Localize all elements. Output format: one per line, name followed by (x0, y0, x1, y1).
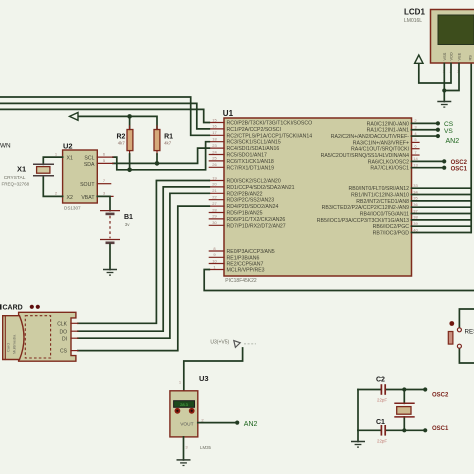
svg-text:Card: Card (6, 343, 11, 352)
svg-text:22pF: 22pF (377, 438, 387, 443)
svg-text:C1: C1 (376, 419, 385, 426)
svg-text:35: 35 (413, 196, 418, 201)
svg-text:18: 18 (212, 137, 217, 142)
svg-text:C2: C2 (376, 377, 385, 384)
svg-text:DO: DO (60, 329, 68, 335)
svg-text:SOUT: SOUT (80, 182, 95, 188)
svg-text:LM35: LM35 (200, 445, 212, 450)
svg-text:RA5/C2OUT/SRNQ/SS1/HLVDIN/AN4: RA5/C2OUT/SRNQ/SS1/HLVDIN/AN4 (321, 153, 410, 159)
svg-text:RA1/C12IN1-/AN1: RA1/C12IN1-/AN1 (367, 128, 409, 134)
svg-text:RD4/P2D/SDO2/AN24: RD4/P2D/SDO2/AN24 (227, 204, 279, 210)
svg-text:38: 38 (413, 215, 418, 220)
svg-text:RB4/IOC0/T5G/AN11: RB4/IOC0/T5G/AN11 (360, 212, 409, 218)
svg-text:AN2: AN2 (244, 421, 258, 428)
svg-text:CS: CS (60, 349, 68, 355)
svg-text:10: 10 (212, 258, 217, 263)
svg-text:U3: U3 (199, 374, 209, 383)
svg-text:RD5/P1B/AN25: RD5/P1B/AN25 (227, 211, 263, 217)
svg-text:RB0/INT0/FLT0/SRI/AN12: RB0/INT0/FLT0/SRI/AN12 (349, 186, 410, 192)
svg-text:DI: DI (62, 336, 67, 342)
svg-text:33: 33 (413, 183, 418, 188)
svg-text:RESET: RESET (465, 329, 474, 336)
svg-text:DS1307: DS1307 (64, 206, 81, 211)
svg-text:SCL: SCL (84, 155, 94, 161)
svg-text:FREQ=32768: FREQ=32768 (2, 182, 30, 187)
svg-text:RC2/CTPLS/P1A/CCP1/T5CKI/AN14: RC2/CTPLS/P1A/CCP1/T5CKI/AN14 (227, 133, 313, 139)
svg-text:U3(+V5): U3(+V5) (210, 340, 229, 346)
svg-text:13: 13 (413, 163, 418, 168)
svg-text:RA2/C2IN+/AN2/DACOUT/VREF-: RA2/C2IN+/AN2/DACOUT/VREF- (331, 134, 410, 140)
svg-text:3v: 3v (125, 222, 131, 227)
svg-text:27: 27 (212, 201, 217, 206)
svg-text:OSC1: OSC1 (432, 426, 449, 432)
svg-text:40: 40 (413, 227, 418, 232)
svg-text:RD3/P2C/SS2/AN23: RD3/P2C/SS2/AN23 (227, 198, 275, 204)
svg-text:37: 37 (413, 208, 418, 213)
svg-text:RC4/SDI1/SDA1/AN16: RC4/SDI1/SDA1/AN16 (227, 146, 280, 152)
svg-text:RA3/C1IN+/AN3/VREF+: RA3/C1IN+/AN3/VREF+ (353, 140, 409, 146)
svg-text:23: 23 (212, 143, 217, 148)
svg-text:WN: WN (0, 143, 11, 150)
svg-text:SDA: SDA (84, 162, 95, 168)
svg-text:14: 14 (413, 156, 418, 161)
svg-text:RB7/IOC3/PGD: RB7/IOC3/PGD (373, 231, 410, 237)
svg-text:RB3/CTED2/P2A/CCP2/C12IN2-/AN9: RB3/CTED2/P2A/CCP2/C12IN2-/AN9 (322, 205, 409, 211)
svg-text:RC3/SCK1/SCL1/AN15: RC3/SCK1/SCL1/AN15 (227, 140, 281, 146)
svg-text:LCD1: LCD1 (404, 8, 425, 17)
svg-text:22pF: 22pF (377, 398, 387, 403)
svg-text:RB5/IOC1/P3A/CCP3/T3CKI/T1G/AN: RB5/IOC1/P3A/CCP3/T3CKI/T1G/AN13 (317, 218, 409, 224)
svg-text:X2: X2 (67, 195, 73, 201)
svg-text:CARD: CARD (3, 305, 23, 312)
svg-text:B1: B1 (124, 214, 133, 221)
svg-text:RC6/TX1/CK1/AN18: RC6/TX1/CK1/AN18 (227, 159, 274, 165)
svg-text:24: 24 (212, 149, 217, 154)
svg-text:AN2: AN2 (446, 138, 460, 145)
svg-text:RE1/P3B/AN6: RE1/P3B/AN6 (227, 255, 260, 261)
svg-text:PIC18F45K22: PIC18F45K22 (225, 278, 257, 284)
svg-text:RC5/SDO1/AN17: RC5/SDO1/AN17 (227, 153, 267, 159)
svg-text:21: 21 (212, 188, 217, 193)
svg-text:RB6/IOC2/PGC: RB6/IOC2/PGC (373, 224, 410, 230)
svg-text:19: 19 (212, 175, 217, 180)
svg-text:25: 25 (212, 156, 217, 161)
svg-text:30: 30 (212, 220, 217, 225)
svg-text:28.3: 28.3 (180, 402, 189, 407)
svg-text:VDD: VDD (449, 52, 454, 60)
svg-text:X1: X1 (67, 155, 73, 161)
svg-text:CRYSTAL: CRYSTAL (4, 175, 26, 181)
svg-text:RB2/INT2/CTED1/AN8: RB2/INT2/CTED1/AN8 (356, 199, 409, 205)
svg-text:RA4/C1OUT/SRQ/T0CKI: RA4/C1OUT/SRQ/T0CKI (351, 147, 409, 153)
svg-text:R1: R1 (164, 133, 173, 140)
svg-text:VSS: VSS (442, 52, 447, 60)
svg-text:34: 34 (413, 189, 418, 194)
svg-text:OSC2: OSC2 (451, 160, 468, 166)
svg-text:CLK: CLK (57, 321, 67, 327)
svg-text:VEE: VEE (457, 52, 462, 60)
svg-text:4k7: 4k7 (118, 140, 126, 145)
svg-text:OSC2: OSC2 (432, 392, 449, 398)
svg-text:RC7/RX1/DT1/AN19: RC7/RX1/DT1/AN19 (227, 165, 275, 171)
svg-text:VOUT: VOUT (180, 421, 193, 427)
svg-text:Multimedia: Multimedia (12, 334, 17, 354)
svg-text:4k7: 4k7 (164, 140, 172, 145)
svg-text:20: 20 (212, 182, 217, 187)
svg-text:RD0/SCK2/SCL2/AN20: RD0/SCK2/SCL2/AN20 (227, 179, 281, 185)
svg-text:MCLR/VPP/RE3: MCLR/VPP/RE3 (227, 268, 265, 274)
svg-text:RS: RS (468, 55, 473, 61)
svg-text:22: 22 (212, 195, 217, 200)
svg-text:RD6/P1C/TX2/CK2/AN26: RD6/P1C/TX2/CK2/AN26 (227, 217, 286, 223)
svg-text:39: 39 (413, 221, 418, 226)
svg-text:26: 26 (212, 162, 217, 167)
svg-text:36: 36 (413, 202, 418, 207)
svg-text:LM016L: LM016L (404, 18, 422, 24)
svg-text:RC1/P2A/CCP2/SOSCI: RC1/P2A/CCP2/SOSCI (227, 127, 282, 133)
svg-text:VS: VS (444, 128, 453, 135)
svg-text:RD1/CCP4/SDI2/SDA2/AN21: RD1/CCP4/SDI2/SDA2/AN21 (227, 185, 295, 191)
svg-text:VBAT: VBAT (81, 195, 95, 201)
svg-text:RD7/P1D/RX2/DT2/AN27: RD7/P1D/RX2/DT2/AN27 (227, 223, 286, 229)
svg-text:R2: R2 (117, 133, 126, 140)
svg-text:RE0/P3A/CCP3/AN5: RE0/P3A/CCP3/AN5 (227, 249, 275, 255)
svg-text:RA0/C12IN0-/AN0: RA0/C12IN0-/AN0 (367, 121, 409, 127)
svg-text:RD2/P2B/AN22: RD2/P2B/AN22 (227, 191, 263, 197)
svg-text:OSC1: OSC1 (451, 167, 468, 173)
svg-text:28: 28 (212, 207, 217, 212)
svg-text:16: 16 (212, 124, 217, 129)
svg-text:RA7/CLKI/OSC1: RA7/CLKI/OSC1 (370, 166, 409, 172)
svg-text:U1: U1 (223, 109, 234, 118)
svg-text:RC0/P2B/T3CKI/T3G/T1CKI/SOSCO: RC0/P2B/T3CKI/T3G/T1CKI/SOSCO (227, 121, 313, 127)
svg-text:X1: X1 (17, 164, 26, 173)
svg-text:RB1/INT1/C12IN3-/AN10: RB1/INT1/C12IN3-/AN10 (351, 193, 409, 199)
svg-text:29: 29 (212, 214, 217, 219)
svg-text:15: 15 (212, 117, 217, 122)
svg-text:17: 17 (212, 130, 217, 135)
svg-text:RA6/CLKO/OSC2: RA6/CLKO/OSC2 (368, 159, 409, 165)
svg-text:U2: U2 (63, 141, 73, 150)
